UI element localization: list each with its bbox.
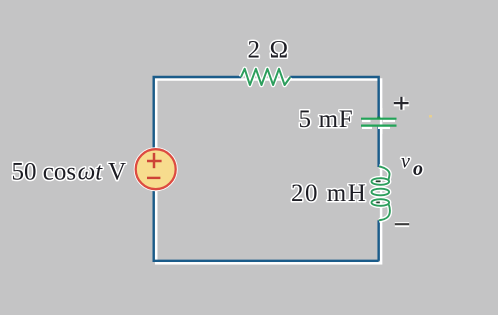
white drop-shadow of circuit loop — [156, 80, 381, 264]
svg-text:o: o — [413, 158, 423, 180]
capacitor C 5mF plates — [361, 108, 397, 134]
coil crossing marks — [376, 181, 381, 202]
wire top-right segment — [290, 77, 378, 118]
scan speck artifact — [429, 115, 432, 118]
svg-text:20 mH: 20 mH — [291, 180, 367, 207]
voltage source V1 circle — [136, 149, 176, 189]
wire right middle segment (capacitor to inductor) — [377, 127, 379, 168]
svg-text:50 cosωt V: 50 cosωt V — [12, 159, 127, 186]
source plus symbol — [147, 153, 162, 168]
svg-text:v: v — [401, 151, 410, 173]
inductor L 20mH coil — [372, 167, 390, 221]
svg-text:5 mF: 5 mF — [299, 106, 354, 133]
source minus symbol — [147, 177, 160, 179]
svg-text:2 Ω: 2 Ω — [248, 37, 290, 64]
wire right lower segment (inductor to bottom) — [377, 220, 379, 260]
minus sign annotation (bottom of vo) — [395, 222, 409, 227]
plus sign annotation (top of vo) — [394, 97, 409, 110]
wire top-left segment — [154, 77, 241, 149]
resistor R 2ohm zigzag — [241, 69, 290, 85]
wire bottom segment — [154, 190, 379, 261]
